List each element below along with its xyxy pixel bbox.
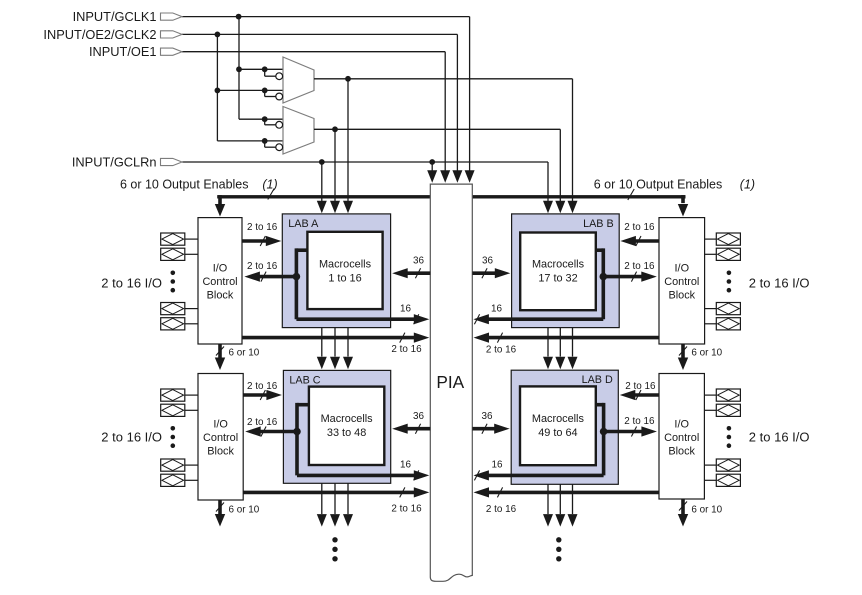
svg-text:2 to 16: 2 to 16 [486,504,517,515]
svg-text:16: 16 [400,303,411,314]
svg-text:6 or 10: 6 or 10 [691,504,722,515]
svg-text:Control: Control [664,276,699,288]
svg-text:17 to 32: 17 to 32 [538,272,577,284]
svg-text:Control: Control [202,276,237,288]
svg-text:2 to 16: 2 to 16 [247,417,278,428]
svg-text:INPUT/OE1: INPUT/OE1 [89,44,157,59]
svg-text:LAB B: LAB B [583,218,614,230]
svg-text:33 to 48: 33 to 48 [327,427,366,439]
svg-text:6 or 10: 6 or 10 [691,347,722,358]
svg-text:Block: Block [207,446,234,458]
svg-text:16: 16 [491,303,502,314]
svg-text:2 to 16 I/O: 2 to 16 I/O [749,430,810,445]
svg-text:INPUT/OE2/GCLK2: INPUT/OE2/GCLK2 [43,27,156,42]
svg-text:2 to 16: 2 to 16 [391,504,422,515]
svg-text:PIA: PIA [436,372,464,392]
svg-text:Block: Block [207,289,234,301]
svg-text:Macrocells: Macrocells [321,413,374,425]
svg-text:16: 16 [400,460,411,471]
svg-text:Control: Control [664,432,699,444]
svg-text:Block: Block [668,289,695,301]
svg-text:2 to 16: 2 to 16 [247,222,278,233]
svg-text:2 to 16 I/O: 2 to 16 I/O [749,276,810,291]
svg-text:(1): (1) [740,177,755,191]
svg-text:Macrocells: Macrocells [319,259,372,271]
svg-text:LAB A: LAB A [288,218,319,230]
svg-text:LAB C: LAB C [289,374,320,386]
svg-text:2 to 16: 2 to 16 [486,345,517,356]
svg-text:LAB D: LAB D [582,374,613,386]
svg-text:2 to 16: 2 to 16 [391,344,422,355]
svg-text:INPUT/GCLRn: INPUT/GCLRn [72,154,157,169]
svg-text:I/O: I/O [675,262,690,274]
svg-text:2 to 16: 2 to 16 [247,261,278,272]
svg-text:I/O: I/O [674,419,689,431]
svg-text:2 to 16: 2 to 16 [247,381,278,392]
svg-text:2 to 16: 2 to 16 [624,416,655,427]
svg-text:36: 36 [482,256,493,267]
svg-text:Control: Control [203,432,238,444]
svg-text:36: 36 [482,411,493,422]
svg-text:Block: Block [668,446,695,458]
svg-text:2 to 16 I/O: 2 to 16 I/O [101,430,162,445]
svg-text:6 or 10: 6 or 10 [229,504,260,515]
svg-text:2 to 16: 2 to 16 [624,261,655,272]
svg-text:Macrocells: Macrocells [532,259,585,271]
svg-text:2 to 16 I/O: 2 to 16 I/O [101,276,162,291]
svg-text:49 to 64: 49 to 64 [538,427,577,439]
svg-text:INPUT/GCLK1: INPUT/GCLK1 [73,9,157,24]
svg-text:6 or 10: 6 or 10 [229,347,260,358]
svg-text:I/O: I/O [213,419,228,431]
svg-text:(1): (1) [262,177,277,191]
svg-text:2 to 16: 2 to 16 [625,381,656,392]
svg-text:36: 36 [413,411,424,422]
svg-text:1 to 16: 1 to 16 [328,272,361,284]
svg-text:36: 36 [413,256,424,267]
svg-text:2 to 16: 2 to 16 [624,222,655,233]
svg-text:6 or 10 Output Enables: 6 or 10 Output Enables [594,177,723,191]
svg-text:6 or 10 Output Enables: 6 or 10 Output Enables [120,177,249,191]
svg-text:16: 16 [492,460,503,471]
svg-text:I/O: I/O [213,262,228,274]
svg-text:Macrocells: Macrocells [532,413,585,425]
